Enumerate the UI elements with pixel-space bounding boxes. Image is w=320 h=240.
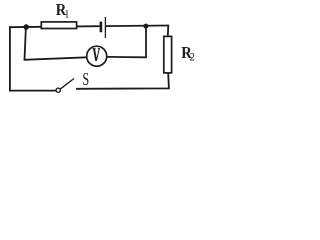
wire: bottom left segment (9, 90, 56, 92)
voltmeter letter V (serifs) (93, 48, 101, 50)
wire: right upper vertical (167, 25, 170, 37)
svg-text:1: 1 (64, 8, 69, 21)
svg-text:S: S (82, 71, 89, 90)
switch S pivot circle (56, 88, 60, 92)
wire: voltmeter branch left (25, 27, 88, 60)
battery cell: short thick plate (100, 22, 103, 33)
resistor R2 (164, 36, 172, 73)
switch S lever (60, 79, 74, 89)
voltmeter U1 circle (87, 46, 107, 66)
wire: top right segment (105, 25, 168, 28)
voltmeter letter V (right arm) (96, 49, 99, 61)
node B junction dot (143, 24, 148, 29)
svg-text:2: 2 (190, 51, 195, 64)
wire: voltmeter branch right (107, 26, 147, 58)
battery cell: long thin plate (104, 17, 106, 38)
voltmeter letter V (left arm) (94, 49, 96, 61)
resistor R1 (41, 22, 76, 29)
wire: top left segment (9, 26, 100, 27)
wire: bottom right segment and right lower vertical (76, 73, 169, 89)
wire: left vertical (9, 26, 11, 90)
node A junction dot (23, 24, 29, 30)
